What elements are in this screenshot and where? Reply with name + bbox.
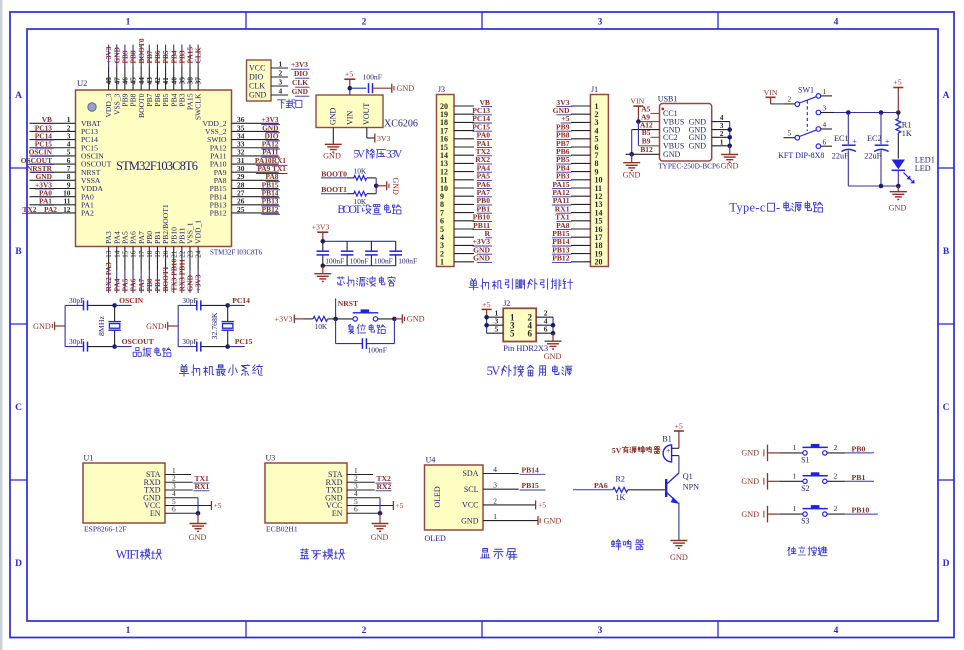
svg-text:GND: GND — [391, 178, 400, 196]
svg-text:1: 1 — [440, 258, 444, 267]
push button S3 — [779, 504, 845, 525]
power port +3V3 reset — [275, 314, 304, 323]
capacitor 30pF top (32.768K) — [178, 296, 228, 311]
svg-text:D: D — [943, 559, 950, 569]
J3 pin 9 wire and net label PA7 — [440, 188, 492, 201]
ground U3 — [371, 513, 389, 542]
J1 pin 6 wire and net label PB7 — [556, 139, 599, 152]
J1 pin 8 wire and net label PB5 — [556, 155, 599, 168]
wires J2 left pins to +5 — [484, 309, 503, 334]
svg-text:24: 24 — [194, 250, 203, 258]
gnd port reset — [394, 314, 424, 323]
J3 pin 2 wire and net label GND — [440, 245, 492, 258]
U2 pin 15 (PA5) wire and net label — [120, 231, 129, 293]
svg-text:J1: J1 — [591, 85, 598, 94]
svg-text:3: 3 — [598, 626, 603, 636]
svg-text:100nF: 100nF — [398, 257, 417, 266]
download port pin 1 wire and net label +3V3 — [271, 60, 310, 70]
gnd port of BOOT circuit — [376, 178, 400, 196]
U2 pin 36 (VDD_2) wire and net label — [202, 115, 280, 128]
svg-text:+5: +5 — [674, 422, 682, 431]
J3 pin 15 wire and net label PA1 — [440, 139, 492, 152]
svg-text:+3V3: +3V3 — [194, 274, 203, 291]
capacitor 100nF filter #4 — [389, 241, 417, 265]
svg-text:2: 2 — [834, 504, 838, 513]
U2 pin 3 (PC14) wire and net label — [30, 131, 99, 144]
svg-text:GND: GND — [292, 87, 308, 96]
svg-text:GND: GND — [33, 322, 51, 331]
capacitor 30pF bottom (8MHz) — [65, 337, 115, 352]
resistor R2 1K — [613, 475, 665, 502]
wire buzzer to collector — [678, 456, 680, 473]
svg-text:GND: GND — [689, 142, 707, 151]
power port +5 at J2 — [482, 300, 492, 317]
ground at regulator GND pin — [323, 128, 342, 161]
ground right of USB1 — [721, 146, 739, 171]
push button S1 — [779, 443, 845, 465]
wire U1 gnd vertical — [196, 498, 201, 516]
svg-text:3: 3 — [493, 481, 497, 490]
U2 pin 24 (VDD_1) wire and net label — [194, 220, 203, 293]
svg-text:USB1: USB1 — [658, 95, 678, 104]
label 芯片滤波电容 — [337, 277, 395, 287]
USB1 pin 2 GND wire — [712, 129, 730, 138]
capacitor 100nF filter #1 — [317, 241, 345, 265]
svg-text:EC2: EC2 — [867, 134, 882, 143]
svg-text:5V: 5V — [487, 364, 501, 378]
svg-text:+3V3: +3V3 — [275, 314, 293, 323]
svg-text:WIFI: WIFI — [116, 547, 140, 561]
U4 pin 1 GND wire to gnd port — [483, 512, 561, 525]
J1 pin 15 wire and net label TX1 — [555, 213, 602, 226]
svg-text:CLK: CLK — [292, 78, 308, 87]
svg-text:Type-c: Type-c — [729, 200, 765, 214]
svg-text:2: 2 — [834, 443, 838, 452]
J3 pin 18 wire and net label PC14 — [440, 114, 492, 127]
svg-text:VOUT: VOUT — [362, 103, 371, 125]
U2 pin 25 (PB12) wire and net label — [210, 205, 280, 218]
J1 pin 9 wire and net label PB4 — [556, 163, 599, 176]
label 晶振电路 — [133, 347, 171, 356]
svg-text:VIN: VIN — [345, 111, 354, 125]
svg-text:1K: 1K — [616, 493, 626, 502]
svg-text:GND: GND — [189, 533, 207, 542]
U2 pin 38 (PA15) wire and net label — [186, 45, 195, 111]
label 5V外接备用电源 — [487, 364, 572, 378]
U2 pin 46 (PB9) wire and net label — [120, 45, 129, 107]
J3 pin 5 wire and net label PB11 — [440, 221, 492, 234]
U2 pin 48 (VDD_3) wire and net label — [104, 45, 113, 118]
net label PC14 wire — [228, 296, 250, 305]
svg-text:B12: B12 — [640, 145, 653, 154]
U2 pin 37 (SWCLK) wire and net label — [194, 45, 203, 121]
U1 pin 1 STA wire — [165, 466, 191, 475]
svg-text:30pF: 30pF — [69, 296, 84, 305]
U2 pin 20 (PB2/BOOT1) wire and net label — [161, 204, 170, 293]
buzzer B1 5V active buzzer — [612, 435, 672, 455]
svg-text:1: 1 — [493, 512, 497, 521]
svg-text:6: 6 — [354, 505, 358, 514]
J1 pin 3 wire and net label +5 — [561, 114, 599, 127]
power port +3V3 filter caps — [312, 223, 330, 242]
net label OSCIN wire — [115, 296, 144, 305]
svg-text:1: 1 — [720, 137, 724, 146]
svg-text:RX2: RX2 — [377, 482, 392, 491]
label module title — [116, 547, 162, 561]
ground power circuit — [889, 186, 907, 213]
svg-text:CLK: CLK — [194, 47, 203, 63]
J1 pin 18 wire and net label PB14 — [552, 237, 603, 250]
wire emitter to ground — [678, 503, 680, 541]
svg-text:PA6: PA6 — [594, 481, 608, 490]
svg-text:EN: EN — [150, 509, 161, 518]
capacitor EC1 22uF — [832, 113, 857, 187]
label 显示屏 — [480, 548, 517, 559]
wire gnd vertical A12-B12 — [629, 130, 634, 157]
svg-text:SDA: SDA — [462, 469, 478, 478]
svg-text:SCL: SCL — [464, 485, 479, 494]
wire crystal loop left vertical (32.768K) — [177, 305, 179, 346]
svg-text:DIO: DIO — [249, 73, 263, 82]
svg-text:+3V3: +3V3 — [291, 60, 308, 69]
U1 pin 5 VCC wire to +5 — [165, 497, 222, 510]
svg-text:22uF: 22uF — [864, 152, 881, 161]
label module title — [300, 549, 344, 560]
J1 pin 7 wire and net label PB6 — [556, 147, 599, 160]
svg-text:OLED: OLED — [425, 534, 447, 543]
USB1 pin A9 wire from VIN — [636, 112, 659, 123]
module U4 OLED body — [425, 456, 484, 544]
svg-text:U2: U2 — [77, 78, 87, 88]
USB1 pin A12 wire to gnd — [632, 120, 660, 129]
svg-text:GND: GND — [249, 91, 267, 100]
svg-text:STM32F I03C8T6: STM32F I03C8T6 — [210, 249, 263, 257]
power port VIN at USB — [630, 96, 644, 121]
svg-text:B5: B5 — [642, 128, 651, 137]
J3 pin 8 wire and net label PB0 — [440, 196, 492, 209]
svg-text:B: B — [15, 247, 22, 257]
connector P? download port body — [247, 60, 272, 101]
svg-text:30pF: 30pF — [182, 296, 197, 305]
svg-text:30pF: 30pF — [182, 337, 197, 346]
svg-text:PA2: PA2 — [44, 205, 57, 214]
svg-text:B1: B1 — [662, 435, 671, 444]
J3 pin 12 wire and net label PA4 — [440, 163, 492, 176]
U2 pin 42 (PB6) wire and net label — [153, 45, 162, 107]
U2 pin 19 (PB1) wire and net label — [153, 231, 162, 293]
label 下载口 — [277, 99, 302, 108]
U2 pin 44 (BOOT0) wire and net label — [137, 38, 146, 118]
svg-text:A: A — [943, 91, 950, 101]
svg-text:D: D — [15, 559, 22, 569]
svg-text:EN: EN — [332, 509, 343, 518]
download port pin 4 wire and net label GND — [271, 87, 310, 97]
svg-text:4: 4 — [823, 120, 827, 129]
net label PB1 wire — [845, 473, 874, 482]
gnd port button S2 — [741, 473, 779, 490]
J1 pin 5 wire and net label PB8 — [556, 131, 599, 144]
U2 pin 2 (PC13) wire and net label — [30, 123, 99, 136]
capacitor 30pF top (8MHz) — [65, 296, 115, 311]
svg-text:2: 2 — [279, 69, 283, 78]
U2 pin 27 (PB14) wire and net label — [210, 188, 280, 201]
svg-text:S1: S1 — [801, 455, 809, 464]
svg-text:1: 1 — [793, 504, 797, 513]
svg-text:SWCLK: SWCLK — [194, 93, 203, 120]
svg-text:SW1: SW1 — [798, 85, 814, 94]
svg-text:J2: J2 — [503, 299, 510, 308]
svg-text:BOOT1: BOOT1 — [321, 185, 347, 194]
wires J2 right pins to gnd — [536, 309, 555, 336]
svg-text:PB0: PB0 — [852, 445, 866, 454]
svg-text:1: 1 — [126, 626, 131, 636]
module U1 ESP8266-12F body — [83, 454, 165, 534]
svg-text:VCC: VCC — [462, 501, 478, 510]
J3 pin 1 wire and net label GND — [440, 254, 492, 267]
svg-text:U1: U1 — [84, 454, 94, 463]
U2 pin 33 (PA12) wire and net label — [210, 140, 280, 153]
U3 pin 6 EN wire — [347, 505, 380, 514]
J3 pin 14 wire and net label TX2 — [440, 147, 492, 160]
U2 pin 12 (PA2) wire and net label — [22, 205, 94, 218]
J1 pin 11 wire and net label PA15 — [552, 180, 602, 193]
resistor R1 1K — [896, 113, 912, 159]
U2 pin 8 (VSSA) wire and net label — [30, 172, 101, 185]
U2 pin 43 (PB7) wire and net label — [145, 45, 154, 107]
svg-text:PB12: PB12 — [210, 209, 227, 218]
J3 pin 19 wire and net label PC13 — [440, 106, 492, 119]
J3 pin 11 wire and net label PA5 — [440, 172, 492, 185]
U2 pin 16 (PA6) wire and net label — [129, 231, 138, 293]
svg-text:30pF: 30pF — [69, 337, 84, 346]
svg-text:12: 12 — [63, 205, 71, 214]
svg-text:1: 1 — [793, 443, 797, 452]
U2 pin 28 (PB15) wire and net label — [210, 180, 280, 193]
push button reset switch — [336, 310, 397, 321]
LED1 diode — [892, 156, 935, 186]
svg-text:PB15: PB15 — [522, 481, 540, 490]
download port pin 2 wire and net label DIO — [271, 69, 310, 79]
gnd port right of input capacitor — [373, 84, 415, 93]
svg-text:+: + — [852, 137, 857, 146]
U2 pin 47 (VSS_3) wire and net label — [112, 45, 121, 116]
net label BOOT0 wire — [321, 169, 355, 178]
U3 pin 1 STA wire — [347, 466, 373, 475]
svg-text:BOOT0: BOOT0 — [321, 169, 347, 178]
svg-text:J3: J3 — [438, 85, 445, 94]
USB1 pin A5 stub — [641, 104, 659, 113]
label 蜂鸣器 — [611, 539, 643, 549]
U2 pin 35 (VSS_2) wire and net label — [205, 123, 280, 136]
svg-text:5: 5 — [510, 328, 515, 338]
ground at J2 — [544, 333, 562, 361]
J3 pin 7 wire and net label PB1 — [440, 204, 492, 217]
net label PA6 wire — [573, 481, 613, 490]
svg-text:NPN: NPN — [683, 482, 699, 491]
svg-text:4: 4 — [279, 87, 283, 96]
svg-text:5V: 5V — [612, 446, 622, 455]
ground left of USB1 — [623, 154, 641, 179]
USB1 pin 4 GND wire — [712, 113, 730, 122]
svg-text:VIN: VIN — [764, 88, 778, 97]
J3 pin 20 wire and net label VB — [440, 98, 492, 111]
svg-text:STM32F103C8T6: STM32F103C8T6 — [116, 159, 198, 173]
svg-text:10K: 10K — [315, 322, 328, 331]
svg-text:C: C — [15, 403, 22, 413]
power port +5 buzzer — [674, 422, 684, 449]
wire joining USB1 gnd pins — [727, 122, 732, 149]
svg-text:TYPEC-250D-BCP6: TYPEC-250D-BCP6 — [658, 161, 720, 170]
svg-text:RX1: RX1 — [195, 482, 210, 491]
USB1 pin B12 wire to gnd — [626, 145, 660, 154]
svg-text:5: 5 — [787, 128, 791, 137]
U3 pin 4 GND wire — [347, 489, 380, 498]
svg-text:PB1: PB1 — [852, 473, 866, 482]
svg-text:6: 6 — [823, 137, 827, 146]
U2 pin 34 (SWIO) wire and net label — [207, 131, 280, 144]
U3 pin 2 RXD wire net TX2 — [347, 474, 392, 483]
J1 pin 16 wire and net label PA8 — [556, 221, 602, 234]
U4 pin 2 VCC wire to +5 — [483, 496, 546, 509]
svg-text:GND: GND — [397, 84, 415, 93]
svg-text:2: 2 — [787, 95, 791, 104]
svg-text:CLK: CLK — [249, 82, 265, 91]
svg-text:GND: GND — [670, 553, 688, 562]
svg-text:+: + — [666, 446, 670, 455]
svg-text:GND: GND — [741, 449, 759, 458]
J1 pin 19 wire and net label PB13 — [552, 245, 603, 258]
net label BOOT1 wire — [321, 185, 355, 194]
svg-text:GND: GND — [721, 161, 739, 170]
label 独立按键 — [788, 546, 827, 555]
svg-text:2: 2 — [834, 471, 838, 480]
U1 pin 2 RXD wire net TX1 — [165, 474, 210, 483]
resistor 10K reset — [303, 316, 335, 330]
gnd port crystal (32.768K) — [146, 322, 178, 331]
svg-text:5V: 5V — [353, 149, 366, 161]
svg-text:+5: +5 — [482, 300, 490, 309]
U2 pin 31 (PA10) wire and net label — [210, 156, 288, 169]
regulator U? XC6206 body — [316, 95, 383, 128]
svg-text:4: 4 — [834, 626, 839, 636]
capacitor 100nF at regulator input — [363, 73, 382, 94]
capacitor 100nF filter #2 — [341, 241, 369, 265]
svg-text:PB12: PB12 — [552, 254, 570, 263]
net label OSCOUT wire — [115, 337, 154, 346]
svg-text:8MHz: 8MHz — [97, 316, 106, 336]
capacitor 100nF filter #3 — [365, 241, 393, 265]
U4 pin 3 SCL wire net PB15 — [483, 481, 546, 490]
ground buzzer — [670, 541, 688, 563]
svg-text:VDD_1: VDD_1 — [194, 220, 203, 244]
svg-text:KFT DIP-8X8: KFT DIP-8X8 — [778, 151, 824, 160]
svg-text:B: B — [943, 247, 950, 257]
svg-text:3.3V: 3.3V — [386, 149, 403, 161]
wire VIN to SW1 pin2 — [771, 103, 795, 105]
svg-text:4: 4 — [493, 465, 497, 474]
svg-text:6: 6 — [172, 505, 176, 514]
svg-text:+5: +5 — [893, 78, 901, 87]
svg-text:6: 6 — [544, 325, 548, 334]
svg-text:100nF: 100nF — [325, 257, 344, 266]
J1 pin 17 wire and net label PB15 — [552, 229, 603, 242]
svg-text:100nF: 100nF — [368, 345, 387, 354]
U2 pin 21 (PB10) wire and net label — [169, 227, 178, 293]
svg-text:100nF: 100nF — [350, 257, 369, 266]
svg-text:10K: 10K — [354, 167, 367, 176]
J1 pin 1 wire and net label 3V3 — [556, 98, 598, 111]
U2 pin 39 (PB3) wire and net label — [177, 45, 186, 107]
U2 pin 7 (NRST) wire and net label — [27, 164, 101, 177]
J3 pin 6 wire and net label PB10 — [440, 213, 492, 226]
svg-text:5: 5 — [495, 325, 499, 334]
USB1 pin B9 wire — [638, 137, 659, 146]
U2 pin 23 (VSS_1) wire and net label — [186, 222, 195, 293]
svg-text:+5: +5 — [538, 501, 546, 510]
USB1 pin 1 GND wire — [712, 137, 730, 146]
U2 pin 40 (PB4) wire and net label — [169, 45, 178, 107]
net label PC15 wire — [228, 337, 253, 346]
J1 pin 20 wire and net label PB12 — [552, 254, 603, 267]
svg-text:20: 20 — [595, 258, 603, 267]
J3 pin 4 wire and net label R — [440, 229, 492, 242]
svg-text:1: 1 — [126, 18, 131, 28]
U2 pin 30 (PA9) wire and net label — [214, 164, 288, 177]
U2 pin 26 (PB13) wire and net label — [210, 197, 280, 210]
svg-text:EC1: EC1 — [834, 134, 849, 143]
power port 3V3 at regulator output — [367, 128, 391, 144]
label 单片机引脚外引排针 — [469, 279, 573, 290]
wire filter cap rails — [321, 239, 396, 268]
wire crystal loop left vertical (8MHz) — [64, 305, 66, 346]
label 单片机最小系统 — [179, 365, 262, 377]
crystal 8MHz — [97, 303, 121, 349]
U2 pin 41 (PB5) wire and net label — [161, 45, 170, 107]
svg-text:Q1: Q1 — [683, 472, 693, 481]
svg-text:GND: GND — [461, 516, 479, 525]
svg-text:OSCIN: OSCIN — [119, 296, 144, 305]
U2 pin 22 (PB11) wire and net label — [177, 227, 186, 293]
J3 pin 3 wire and net label +3V3 — [440, 237, 492, 250]
svg-text:+5: +5 — [395, 501, 403, 510]
J1 pin 13 wire and net label PA11 — [552, 196, 603, 209]
svg-text:S3: S3 — [801, 517, 809, 526]
U2 pin 29 (PA8) wire and net label — [214, 172, 280, 185]
gnd port button S3 — [741, 506, 779, 523]
U2 pin 9 (VDDA) wire and net label — [30, 180, 104, 193]
gnd port button S1 — [741, 445, 779, 462]
wire SW1 pin3 to power rail — [834, 110, 901, 115]
J3 pin 10 wire and net label PA6 — [440, 180, 492, 193]
svg-text:-: - — [776, 200, 780, 214]
wire joining BOOT resistors — [374, 178, 379, 194]
resistor 10K BOOT1 — [354, 191, 377, 206]
J1 pin 4 wire and net label PB9 — [556, 122, 599, 135]
resistor 10K BOOT0 — [354, 167, 377, 181]
capacitor 100nF reset — [336, 319, 395, 354]
svg-text:GND: GND — [371, 533, 389, 542]
net label NRST wire — [333, 298, 358, 321]
J1 pin 10 wire and net label PB3 — [556, 172, 603, 185]
power port +5 rail — [893, 78, 903, 113]
svg-text:PC15: PC15 — [235, 337, 253, 346]
U2 pin 18 (PB0) wire and net label — [145, 231, 154, 293]
svg-text:U4: U4 — [426, 456, 436, 465]
U2 pin 14 (PA4) wire and net label — [112, 231, 121, 293]
U4 pin 4 SDA wire net PB14 — [483, 465, 546, 474]
svg-text:1: 1 — [793, 471, 797, 480]
svg-text:GND: GND — [544, 352, 562, 361]
